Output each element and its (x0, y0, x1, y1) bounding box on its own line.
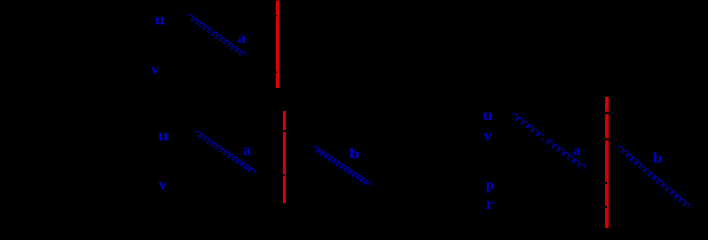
eikonal r stub on right cut (590, 206, 607, 208)
svg-text:u: u (155, 10, 165, 28)
svg-text:u: u (483, 106, 494, 124)
eikonal u crossing lower cut (275, 130, 300, 133)
cut line (right) (605, 97, 609, 228)
svg-text:a: a (573, 143, 581, 159)
eikonal p stub on right cut (590, 182, 607, 184)
eikonal u crossing right cut (596, 111, 620, 114)
svg-text:b: b (349, 145, 360, 162)
gluon b (left lower) (313, 146, 371, 185)
cut line (left upper) (276, 1, 279, 89)
svg-text:r: r (486, 196, 493, 213)
cut line (left lower) (283, 111, 286, 203)
gluon a (left lower) (195, 131, 255, 173)
svg-text:a: a (243, 142, 251, 159)
eikonal v crossing right cut and gluon a (541, 137, 626, 140)
gluon a (right) (512, 114, 585, 170)
eikonal v notch on lower cut (272, 174, 285, 176)
svg-text:b: b (653, 149, 663, 166)
gluon b (right) (618, 147, 690, 209)
svg-text:v: v (159, 176, 167, 193)
svg-text:p: p (486, 177, 494, 193)
svg-text:v: v (151, 62, 160, 78)
eikonal v stub over upper cut (262, 71, 277, 73)
svg-text:a: a (238, 30, 246, 47)
svg-text:u: u (158, 126, 168, 144)
svg-text:v: v (484, 126, 493, 144)
gluon a (left upper) (188, 15, 246, 57)
eikonal u stub over upper cut (262, 15, 277, 17)
